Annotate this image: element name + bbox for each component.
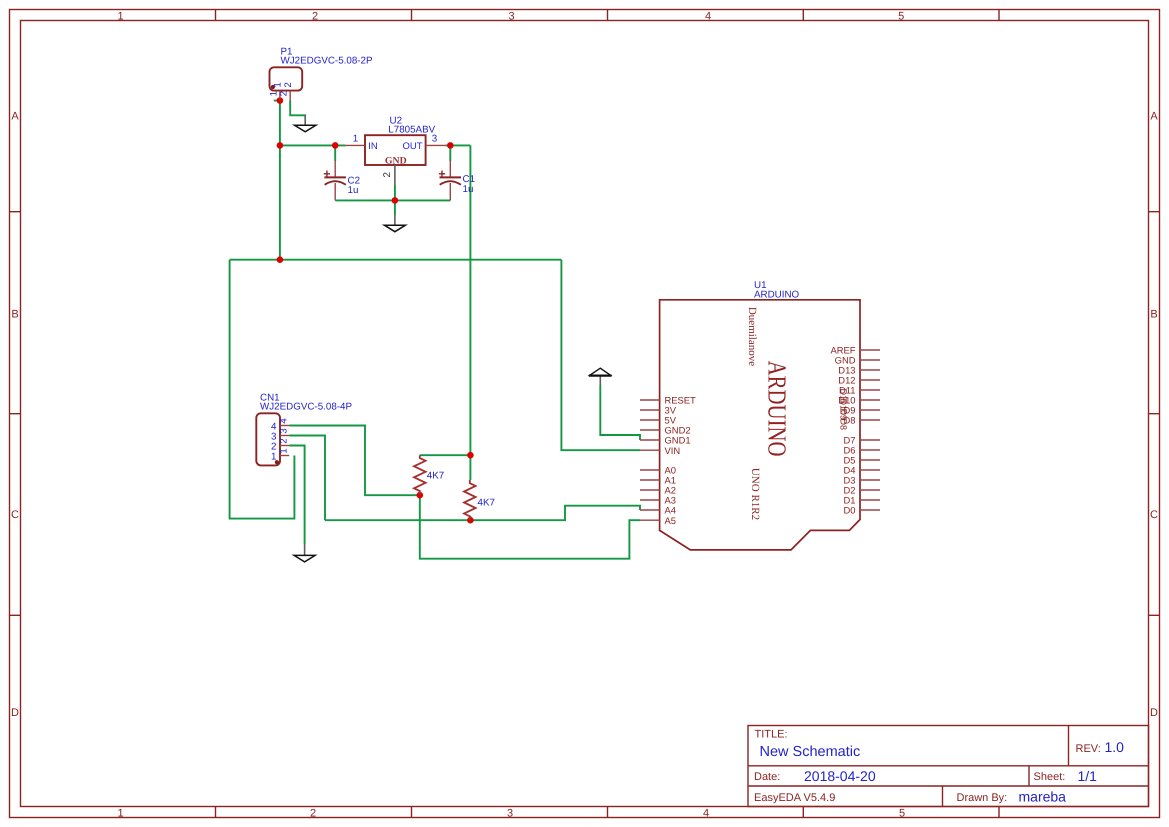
svg-text:4K7: 4K7 xyxy=(427,471,444,482)
pin D8 xyxy=(860,419,880,421)
capacitor C2 top plate xyxy=(324,176,346,178)
svg-text:D8: D8 xyxy=(839,419,849,431)
pin RESET xyxy=(640,399,660,401)
svg-text:1/1: 1/1 xyxy=(1078,768,1098,784)
svg-text:New Schematic: New Schematic xyxy=(760,744,861,760)
pin 3V xyxy=(640,409,660,411)
svg-text:3: 3 xyxy=(278,428,289,433)
wire 5V vertical from OUT down to resistor junction xyxy=(469,145,471,455)
svg-text:A5: A5 xyxy=(665,515,676,526)
wire R1 top horizontal xyxy=(420,454,471,456)
svg-text:4: 4 xyxy=(705,10,711,22)
svg-text:TITLE:: TITLE: xyxy=(755,729,788,741)
svg-text:2: 2 xyxy=(312,10,318,22)
wire CN1.2 to ground xyxy=(289,446,304,545)
wire VIN drop xyxy=(561,260,640,451)
title block outline xyxy=(748,726,1149,807)
wire C2 top lead green part xyxy=(334,145,336,161)
ground U2 stem xyxy=(394,215,396,226)
connector P1 origin dot xyxy=(271,85,275,89)
wire branch to U2 IN xyxy=(280,144,346,146)
title block Sheet divider xyxy=(1028,766,1030,786)
junction R1 top / 5V xyxy=(467,452,474,459)
ground CN1 stem xyxy=(304,545,306,556)
regulator U2 body xyxy=(365,135,426,165)
junction VIN net at P1 column xyxy=(277,256,284,263)
svg-text:1: 1 xyxy=(271,451,276,462)
wire A4 net horizontal xyxy=(325,506,640,521)
arduino U1 left pins xyxy=(640,400,660,520)
connector CN1 pin 2 xyxy=(280,445,289,447)
svg-text:GND: GND xyxy=(385,155,407,166)
frame left ticks xyxy=(10,212,21,616)
title block REV divider xyxy=(1068,726,1070,766)
power flag arrow base bar xyxy=(589,375,612,377)
svg-text:A: A xyxy=(11,111,19,123)
arduino U1 right pins xyxy=(860,350,880,510)
pin GND1 xyxy=(640,439,660,441)
svg-text:4: 4 xyxy=(703,807,709,819)
pin D11 xyxy=(860,389,880,391)
svg-text:A: A xyxy=(1150,111,1158,123)
wire power arrow stem green xyxy=(600,385,640,440)
capacitor C1 top plate xyxy=(440,176,462,178)
pin D12 xyxy=(860,379,880,381)
regulator U2 pin 2 stem xyxy=(394,165,396,185)
svg-text:C: C xyxy=(11,509,19,521)
svg-text:WJ2EDGVC-5.08-4P: WJ2EDGVC-5.08-4P xyxy=(260,401,352,412)
capacitor C2 plus sign xyxy=(324,171,330,178)
resistor R2 zigzag xyxy=(464,480,476,520)
arduino U1 body outline xyxy=(660,300,860,550)
svg-text:2018-04-20: 2018-04-20 xyxy=(804,768,876,784)
svg-text:2: 2 xyxy=(382,172,393,177)
svg-text:3: 3 xyxy=(507,807,513,819)
regulator U2 pin 3 xyxy=(426,144,446,146)
junction C2 top xyxy=(332,142,339,149)
pin A4 xyxy=(640,509,660,511)
svg-text:C: C xyxy=(1150,509,1158,521)
pin D0 xyxy=(860,509,880,511)
connector P1 body xyxy=(270,67,303,90)
resistor R1 zigzag xyxy=(414,455,426,495)
svg-text:D: D xyxy=(1150,707,1158,719)
wire P1.1 down to main horizontal xyxy=(279,101,281,260)
title block DrawnBy divider xyxy=(942,786,944,807)
pin D6 xyxy=(860,449,880,451)
pin VIN xyxy=(640,449,660,451)
svg-text:Drawn By:: Drawn By: xyxy=(957,792,1008,804)
svg-text:Duemilanove: Duemilanove xyxy=(746,307,758,366)
svg-text:B: B xyxy=(11,309,18,321)
wire gnd stem below junction xyxy=(394,200,396,215)
frame top ticks xyxy=(216,10,1000,21)
svg-text:1.0: 1.0 xyxy=(1105,739,1125,755)
ground CN1 triangle xyxy=(294,555,315,562)
junction C1 top xyxy=(447,142,454,149)
pin D10 xyxy=(860,399,880,401)
svg-text:4: 4 xyxy=(278,418,289,423)
ground P1 stem xyxy=(304,115,306,125)
pin A2 xyxy=(640,489,660,491)
wire R2 bottom through A4 net (crossing) xyxy=(420,495,640,559)
capacitor C1 bottom lead xyxy=(449,183,451,200)
connector CN1 body xyxy=(256,413,280,465)
wire C1 top lead green part xyxy=(449,145,451,161)
svg-text:1: 1 xyxy=(117,10,123,22)
svg-text:IN: IN xyxy=(368,141,378,152)
svg-text:L7805ABV: L7805ABV xyxy=(388,124,435,135)
connector CN1 pin 1 xyxy=(280,455,289,457)
svg-text:1: 1 xyxy=(117,807,123,819)
pin AREF xyxy=(860,349,880,351)
svg-text:VIN: VIN xyxy=(665,445,681,456)
wire CN1.3 to A4 net xyxy=(289,436,325,521)
pin D2 xyxy=(860,489,880,491)
svg-text:ARDUINO: ARDUINO xyxy=(754,290,800,301)
svg-text:2: 2 xyxy=(310,807,316,819)
svg-text:D: D xyxy=(11,707,19,719)
svg-text:4K7: 4K7 xyxy=(478,497,495,508)
capacitor C2 bottom plate arc xyxy=(325,181,346,185)
ground P1 triangle xyxy=(295,125,316,132)
regulator U2 pin 1 xyxy=(345,144,365,146)
pin A5 xyxy=(640,519,660,521)
connector CN1 pin 3 xyxy=(280,435,289,437)
pin D7 xyxy=(860,439,880,441)
frame right ticks xyxy=(1149,212,1160,616)
svg-text:1u: 1u xyxy=(348,185,359,196)
svg-text:WJ2EDGVC-5.08-2P: WJ2EDGVC-5.08-2P xyxy=(281,56,373,67)
junction U2 IN branch xyxy=(277,142,284,149)
capacitor C1 bottom plate arc xyxy=(440,181,461,185)
wire main horizontal VIN net xyxy=(230,259,562,261)
ground U2 triangle xyxy=(384,225,405,232)
pin D1 xyxy=(860,499,880,501)
pin GND2 xyxy=(640,429,660,431)
svg-text:Sheet:: Sheet: xyxy=(1034,771,1066,783)
pin D13 xyxy=(860,369,880,371)
svg-text:1: 1 xyxy=(353,134,358,145)
wire CN1.4 to R1 bottom xyxy=(289,426,420,496)
svg-text:Date:: Date: xyxy=(754,771,780,783)
wire cap bottom bus xyxy=(335,199,450,201)
wire P1.1 stub left xyxy=(274,100,280,102)
wire left loop down xyxy=(230,260,295,519)
power flag stem gray xyxy=(599,374,601,386)
svg-text:mareba: mareba xyxy=(1019,789,1067,805)
svg-text:2: 2 xyxy=(283,82,294,87)
svg-text:2: 2 xyxy=(279,91,290,96)
junction R2 bottom xyxy=(467,517,474,524)
pin A0 xyxy=(640,469,660,471)
wire U2 pin2 green part xyxy=(394,185,396,200)
title block row line 2 xyxy=(748,785,1149,787)
svg-text:UNO R1R2: UNO R1R2 xyxy=(749,468,761,520)
svg-text:3: 3 xyxy=(509,10,515,22)
pin D3 xyxy=(860,479,880,481)
svg-text:B: B xyxy=(1150,309,1157,321)
svg-text:5: 5 xyxy=(898,10,904,22)
wire R2 top green xyxy=(469,455,471,480)
power flag arrow xyxy=(590,368,611,375)
pin A1 xyxy=(640,479,660,481)
capacitor C1 top lead xyxy=(449,161,451,178)
title block row line 1 xyxy=(748,765,1149,767)
svg-text:OUT: OUT xyxy=(402,141,422,152)
svg-text:REV:: REV: xyxy=(1076,743,1101,755)
connector P1 pin 2 xyxy=(289,91,291,101)
pin A3 xyxy=(640,499,660,501)
wire U2 OUT to C1 junction and right xyxy=(445,144,470,146)
junction P1 pin1 xyxy=(277,97,284,104)
frame bottom ticks xyxy=(216,807,1000,818)
svg-text:5: 5 xyxy=(899,807,905,819)
pin D4 xyxy=(860,469,880,471)
pin D5 xyxy=(860,459,880,461)
svg-text:EasyEDA V5.4.9: EasyEDA V5.4.9 xyxy=(754,792,835,804)
svg-text:1u: 1u xyxy=(463,184,474,195)
pin 5V xyxy=(640,419,660,421)
svg-text:1: 1 xyxy=(278,448,289,453)
wire R2 bottom junction horizontal continues xyxy=(469,516,471,520)
capacitor C2 bottom lead xyxy=(334,183,336,200)
junction R1 bottom xyxy=(417,492,424,499)
capacitor C1 plus sign xyxy=(439,171,445,178)
connector CN1 pin 4 xyxy=(280,425,289,427)
svg-text:2: 2 xyxy=(278,438,289,443)
pin D9 xyxy=(860,409,880,411)
wire P1.2 to ground jog xyxy=(290,100,305,116)
connector P1 pin 1 xyxy=(279,91,281,101)
svg-text:D0: D0 xyxy=(844,505,856,516)
pin GND xyxy=(860,359,880,361)
connector CN1 origin dot xyxy=(275,460,279,464)
svg-text:ARDUINO: ARDUINO xyxy=(763,361,792,457)
junction gnd bus xyxy=(392,197,399,204)
capacitor C2 top lead xyxy=(334,161,336,178)
